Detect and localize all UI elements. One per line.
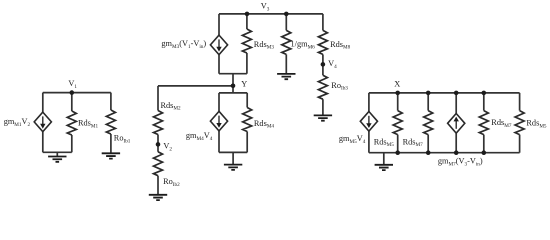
svg-text:RoIb3: RoIb3 [331, 81, 348, 92]
svg-text:gmM7(V3-Vin): gmM7(V3-Vin) [438, 157, 483, 168]
svg-text:RoIb1: RoIb1 [114, 134, 131, 145]
svg-text:Y: Y [241, 79, 247, 88]
svg-text:RdsM1: RdsM1 [78, 119, 99, 130]
svg-text:V1: V1 [68, 79, 77, 90]
svg-text:gmM1V2: gmM1V2 [4, 117, 31, 128]
svg-text:gmM4V4: gmM4V4 [186, 131, 213, 142]
svg-text:RdsM5: RdsM5 [526, 118, 547, 129]
svg-text:V3: V3 [261, 2, 270, 13]
svg-text:RdsM2: RdsM2 [161, 101, 182, 112]
svg-text:1/gmM6: 1/gmM6 [291, 39, 316, 50]
svg-text:gmM5V4: gmM5V4 [339, 134, 366, 145]
svg-text:RdsM3: RdsM3 [254, 40, 275, 51]
svg-text:RdsM5: RdsM5 [374, 137, 395, 148]
svg-text:RdsM7: RdsM7 [491, 118, 512, 129]
svg-text:gmM3(V1-Vin): gmM3(V1-Vin) [161, 39, 206, 50]
svg-text:V2: V2 [163, 141, 172, 152]
svg-text:X: X [394, 80, 400, 89]
svg-text:RoIb2: RoIb2 [163, 177, 180, 188]
svg-text:RdsM4: RdsM4 [254, 119, 275, 130]
svg-text:RdsM8: RdsM8 [330, 40, 351, 51]
svg-text:RdsM7: RdsM7 [403, 137, 424, 148]
svg-text:V4: V4 [328, 59, 337, 70]
